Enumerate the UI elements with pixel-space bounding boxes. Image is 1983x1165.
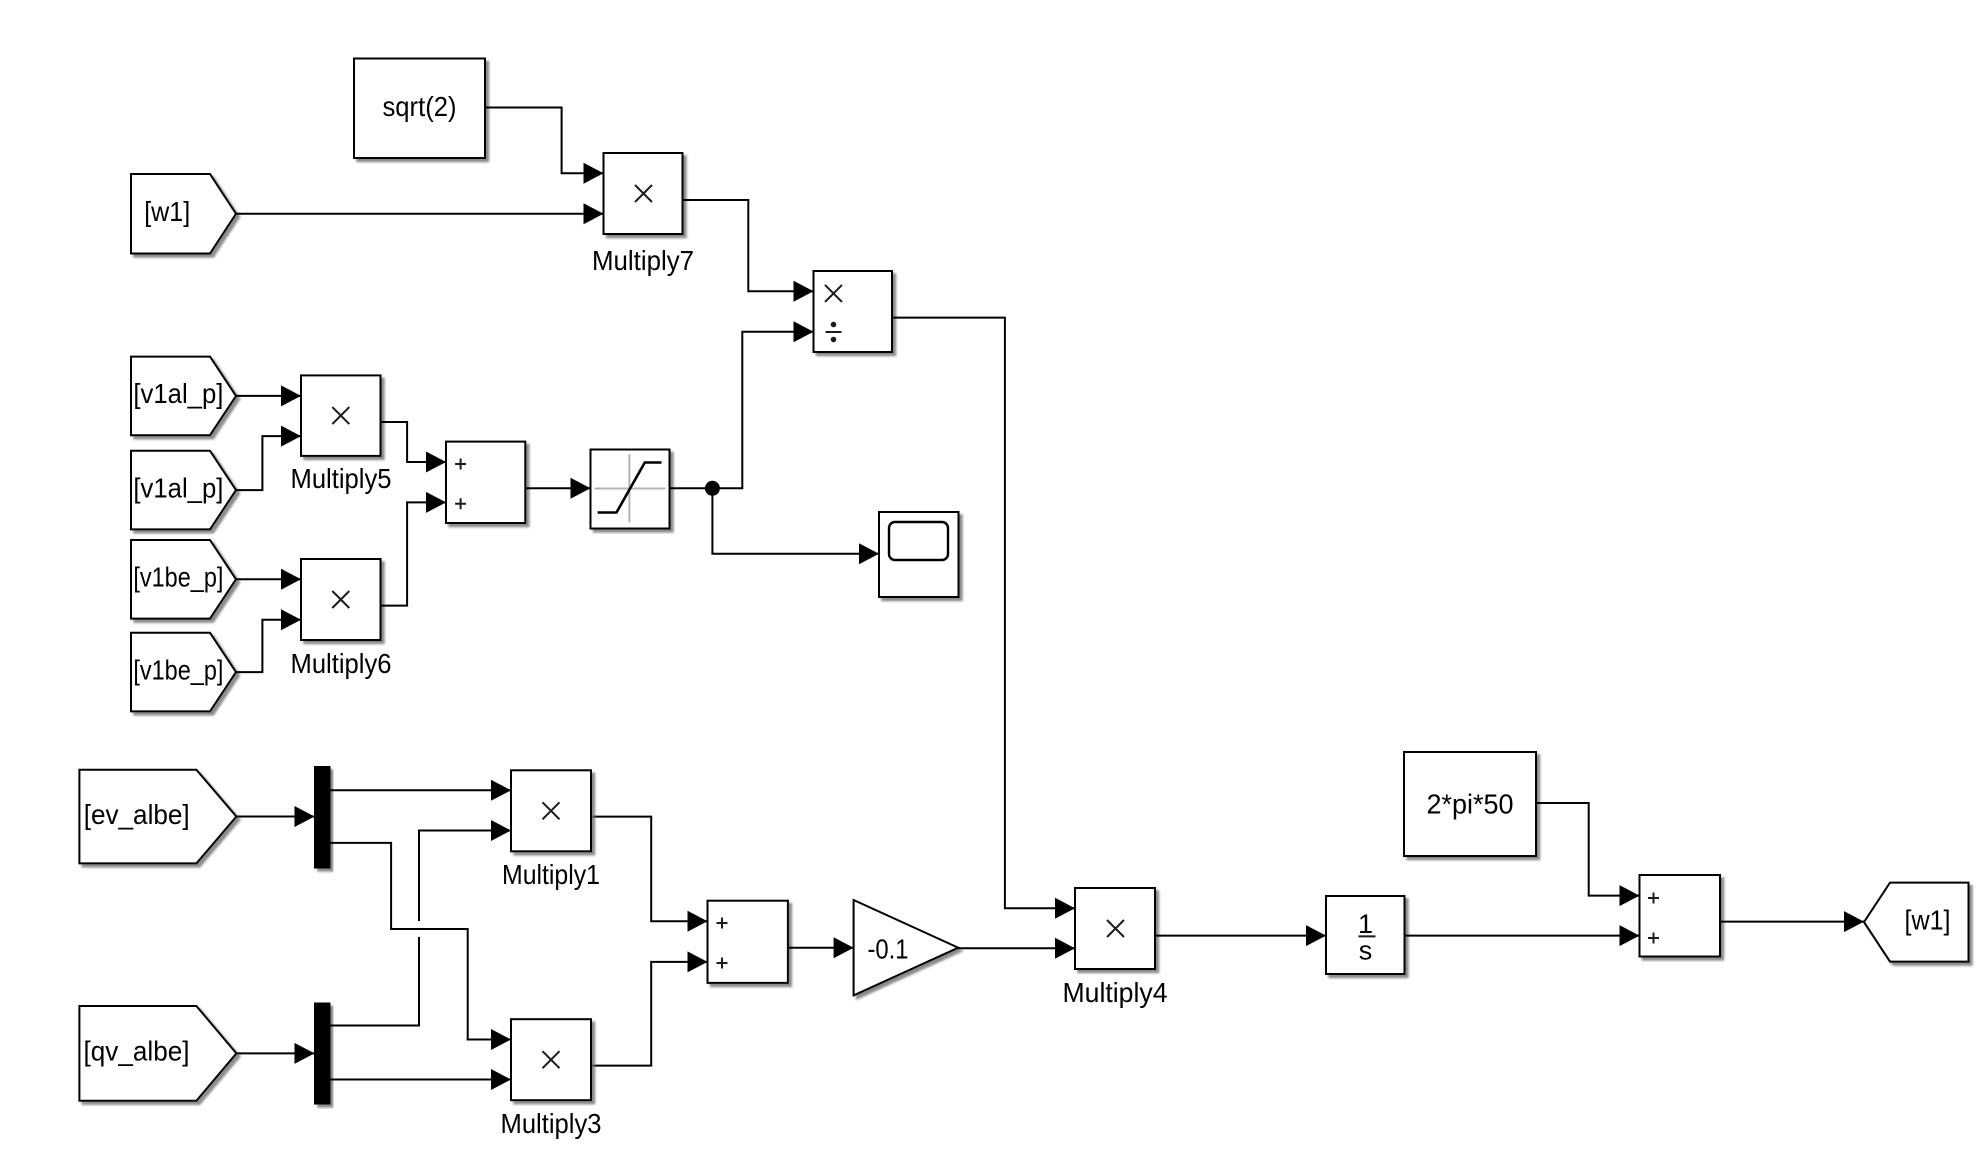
- wire right sum to goto [w1]: [1720, 911, 1864, 932]
- wire [v1al_p] first to Multiply5 input 1: [236, 385, 301, 406]
- from tag [v1be_p] second: [131, 633, 236, 712]
- wire [w1] to Multiply7 input 2: [236, 203, 604, 224]
- svg-text:[qv_albe]: [qv_albe]: [84, 1036, 190, 1067]
- product-divide block: [814, 271, 893, 352]
- wire saturation to junction: [670, 487, 713, 489]
- label Multiply5: [291, 463, 392, 494]
- wire lower mux output 1 to Multiply1 input 2: [330, 820, 511, 1026]
- label Multiply6: [291, 648, 392, 679]
- label Multiply1: [502, 859, 600, 890]
- wire upper add to saturation: [525, 478, 590, 499]
- constant block sqrt(2): [354, 59, 485, 159]
- svg-text:-0.1: -0.1: [868, 934, 909, 965]
- wire [v1be_p] first to Multiply6 input 1: [236, 569, 301, 590]
- wire 2*pi*50 to right sum input 1: [1536, 803, 1640, 906]
- svg-text:Multiply5: Multiply5: [291, 463, 392, 494]
- from tag [w1]: [131, 174, 236, 254]
- goto tag [w1]: [1864, 883, 1969, 962]
- product block Multiply4: [1075, 888, 1155, 969]
- wire [qv_albe] to lower mux bar: [236, 1043, 314, 1064]
- saturation block: [591, 450, 670, 529]
- add block upper: [446, 442, 525, 523]
- svg-text:[v1be_p]: [v1be_p]: [133, 654, 223, 685]
- svg-text:[w1]: [w1]: [144, 196, 190, 227]
- wire [v1be_p] second to Multiply6 input 2: [236, 609, 301, 672]
- svg-text:[w1]: [w1]: [1905, 904, 1951, 935]
- svg-text:[v1al_p]: [v1al_p]: [133, 378, 223, 409]
- wire Multiply4 to integrator: [1155, 925, 1326, 946]
- product block Multiply3: [511, 1019, 591, 1100]
- svg-text:1: 1: [1358, 909, 1373, 939]
- wire sqrt(2) to Multiply7 input 1: [486, 108, 604, 184]
- from tag [v1al_p] first: [131, 357, 236, 436]
- svg-text:Multiply3: Multiply3: [501, 1108, 602, 1139]
- svg-text:Multiply6: Multiply6: [291, 648, 392, 679]
- sum block right: [1640, 875, 1721, 957]
- wire Multiply6 to upper add input 2: [381, 492, 447, 606]
- wire Multiply7 to product-divide input 1: [683, 200, 814, 302]
- wire product-divide to Multiply4 input 1: [892, 318, 1075, 919]
- wire [v1al_p] second to Multiply5 input 2: [236, 426, 301, 491]
- product block Multiply7: [604, 153, 683, 234]
- wire Multiply1 to lower add input 1: [591, 817, 708, 932]
- svg-text:[ev_albe]: [ev_albe]: [84, 799, 190, 830]
- svg-text:[v1be_p]: [v1be_p]: [133, 562, 223, 593]
- gain block -0.1: [854, 900, 959, 995]
- svg-text:[v1al_p]: [v1al_p]: [133, 472, 223, 503]
- wire integrator to right sum input 2: [1405, 925, 1640, 946]
- wire junction to scope: [712, 488, 879, 564]
- svg-text:Multiply1: Multiply1: [502, 859, 600, 890]
- mux bar lower: [315, 1003, 331, 1104]
- wire gain to Multiply4 input 2: [958, 938, 1075, 959]
- wire [ev_albe] to upper mux bar: [236, 806, 314, 827]
- product block Multiply6: [301, 559, 381, 640]
- product block Multiply1: [511, 770, 591, 851]
- product block Multiply5: [301, 375, 381, 456]
- svg-text:sqrt(2): sqrt(2): [383, 91, 457, 122]
- from tag [v1al_p] second: [131, 451, 236, 530]
- constant block 2*pi*50: [1404, 752, 1536, 856]
- scope block: [879, 512, 959, 597]
- wire junction to product-divide input 2: [712, 321, 813, 488]
- junction node dot: [705, 481, 720, 496]
- wire Multiply3 to lower add input 2: [591, 951, 708, 1065]
- label Multiply7: [592, 245, 694, 276]
- from tag [qv_albe]: [79, 1006, 236, 1101]
- wire lower add to gain: [788, 937, 854, 958]
- from tag [ev_albe]: [79, 770, 236, 864]
- wire lower mux output 2 to Multiply3 input 2: [330, 1069, 511, 1090]
- wire Multiply5 to upper add input 1: [381, 422, 447, 473]
- add block lower: [708, 901, 788, 983]
- svg-text:2*pi*50: 2*pi*50: [1427, 789, 1514, 820]
- from tag [v1be_p] first: [131, 540, 236, 619]
- mux bar upper: [315, 767, 331, 869]
- svg-text:Multiply7: Multiply7: [592, 245, 694, 276]
- integrator block 1/s: [1326, 896, 1405, 974]
- wire upper mux output 1 to Multiply1 input 1: [330, 780, 511, 801]
- svg-text:s: s: [1359, 936, 1373, 966]
- label Multiply3: [501, 1108, 602, 1139]
- svg-text:Multiply4: Multiply4: [1063, 977, 1168, 1008]
- wire upper mux output 2 to Multiply3 input 1: [330, 843, 511, 1050]
- label Multiply4: [1063, 977, 1168, 1008]
